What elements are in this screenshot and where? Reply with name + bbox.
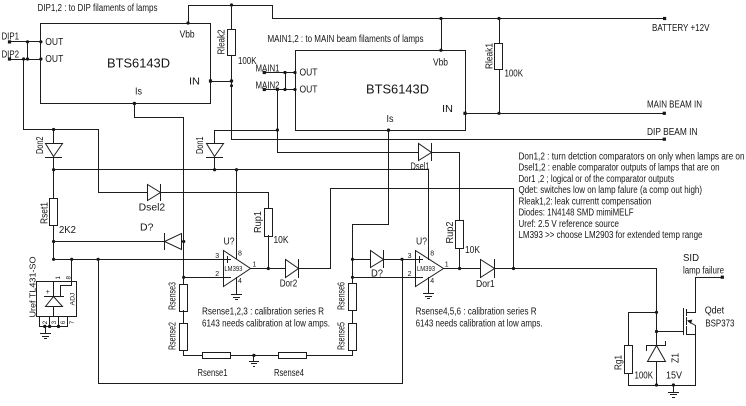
note: DIP filaments <box>38 3 158 14</box>
junction comp2 +input row <box>351 258 354 261</box>
note Rsense456 <box>416 307 537 318</box>
svg-text:OUT: OUT <box>45 37 63 48</box>
junction U1 Vbb pin <box>186 21 189 24</box>
svg-text:Rleak1: Rleak1 <box>485 43 496 69</box>
svg-text:Rsense5: Rsense5 <box>336 322 347 350</box>
svg-text:7: 7 <box>69 320 76 324</box>
svg-text:Diodes: 1N4148 SMD mimiMELF: Diodes: 1N4148 SMD mimiMELF <box>519 208 634 219</box>
junction Is/D? row <box>182 240 185 243</box>
wire OR node to Qdet gate column <box>495 268 657 270</box>
svg-text:LM393: LM393 <box>417 266 435 273</box>
pin 8 label (comp2) <box>430 251 434 258</box>
junction U2 Vbb pin <box>439 49 442 52</box>
resistor Rleak2 <box>217 6 236 56</box>
svg-text:Rsense6: Rsense6 <box>336 282 347 310</box>
junction Uref/D? row <box>52 240 55 243</box>
resistor Rsense6 <box>336 282 356 311</box>
node MAIN2 label <box>256 81 280 92</box>
svg-text:10K: 10K <box>465 245 480 256</box>
wire Rup2 bottom to comp2 output <box>459 249 461 269</box>
svg-text:Rset1: Rset1 <box>40 202 51 224</box>
wire DIP BEAM IN <box>232 139 665 141</box>
svg-text:Rsense4,5,6 : calibration seri: Rsense4,5,6 : calibration series R <box>416 307 537 318</box>
wire Rsense5-Rsense6 <box>352 311 354 324</box>
svg-text:Don1: Don1 <box>195 137 206 155</box>
svg-text:Don2: Don2 <box>35 137 46 155</box>
svg-text:2: 2 <box>408 271 412 278</box>
note line 2 <box>519 163 720 174</box>
note line 6 <box>519 208 634 219</box>
resistor Rup1 <box>253 209 273 237</box>
wire U1 IN pin <box>209 79 232 82</box>
junction OR node <box>512 267 515 270</box>
svg-text:Qdet: switches low on lamp fal: Qdet: switches low on lamp falure (a com… <box>519 185 703 196</box>
svg-text:MAIN BEAM IN: MAIN BEAM IN <box>647 100 702 111</box>
junction IN1 wire <box>230 79 233 87</box>
junction battery-Vbb2 <box>439 17 442 20</box>
svg-text:6: 6 <box>60 320 67 324</box>
svg-text:Rsense2: Rsense2 <box>168 322 179 350</box>
svg-text:Rsense3: Rsense3 <box>168 282 179 310</box>
svg-text:2: 2 <box>42 320 49 324</box>
svg-text:Is: Is <box>135 87 142 98</box>
svg-text:3: 3 <box>408 253 412 260</box>
junction ADJ tap <box>70 258 73 261</box>
wire Rsense6 top to Is2 jog <box>353 225 389 284</box>
pin 1 label (comp2) <box>445 261 449 268</box>
node MAIN1 pad <box>263 71 266 74</box>
resistor Rleak1 <box>485 19 503 70</box>
ground (Qdet source rail) <box>669 386 679 398</box>
wire comp1 output <box>251 268 286 270</box>
junction sense ground <box>252 354 255 357</box>
svg-text:Vbb: Vbb <box>433 58 448 69</box>
note Rsense456 line2 <box>416 319 543 330</box>
junction Rleak1 / MAIN BEAM <box>497 112 500 115</box>
wire U2 Is pin down <box>387 129 390 225</box>
svg-text:100K: 100K <box>505 69 524 80</box>
note line 4 <box>519 185 703 196</box>
svg-text:8: 8 <box>430 251 434 258</box>
svg-text:Rup1: Rup1 <box>253 211 264 233</box>
pin 3 label (comp1) <box>215 253 219 260</box>
pin 4 label (comp1) <box>238 278 242 285</box>
transistor Qdet BSP373 (N-MOSFET) <box>684 306 735 335</box>
svg-text:Rsense4: Rsense4 <box>274 368 304 379</box>
wire Dsel2 cathode to Rup1 <box>161 193 269 209</box>
svg-text:1: 1 <box>253 261 257 268</box>
svg-text:OUT: OUT <box>300 68 318 79</box>
pin 1 label (TL431) <box>55 276 62 280</box>
svg-text:Dor2: Dor2 <box>280 279 298 290</box>
wire comp1 pin4 to ground <box>236 278 238 295</box>
svg-text:BTS6143D: BTS6143D <box>366 82 429 97</box>
junction rail at Don1 <box>213 168 216 171</box>
wire Rsense3-Rsense2 <box>183 311 185 324</box>
note line 1 <box>519 151 745 162</box>
resistor Rsense1 <box>198 353 231 380</box>
svg-text:SID: SID <box>683 253 699 264</box>
resistor Rsense5 <box>336 322 356 351</box>
svg-text:1: 1 <box>445 261 449 268</box>
value 15V <box>666 370 682 381</box>
svg-text:Don1,2 : turn detction compara: Don1,2 : turn detction comparators on on… <box>519 151 745 162</box>
resistor Rsense3 <box>168 282 188 312</box>
svg-text:100K: 100K <box>238 56 257 67</box>
junction Uref riser <box>97 258 100 261</box>
svg-text:10K: 10K <box>274 235 289 246</box>
ground (TL431) <box>41 327 51 339</box>
svg-text:Uref TL431-SO: Uref TL431-SO <box>29 257 38 318</box>
wire DIP1-DIP2 strap <box>27 42 29 60</box>
wire Rset1 bottom to Uref node <box>53 226 55 260</box>
note line 3 <box>519 174 675 185</box>
diode D? (comp1 clamp, pointing left) <box>54 223 184 250</box>
junction DIP1 row <box>26 40 43 43</box>
wire Don2 row down to Dsel2 row <box>98 130 100 193</box>
pin 8 label (comp1) <box>238 251 242 258</box>
pin 8 label (TL431 ADJ) <box>66 276 73 280</box>
node SID lamp failure <box>683 253 724 279</box>
diode Dor1 <box>476 260 495 291</box>
wire DIP2 down to Don2 row <box>24 60 99 130</box>
svg-text:BTS6143D: BTS6143D <box>107 56 170 71</box>
wire TL431 cathode pin <box>53 282 55 297</box>
pin 2 label (comp2) <box>408 271 412 278</box>
node DIP1 pad <box>8 40 11 43</box>
resistor Rsense4 <box>274 353 307 380</box>
node DIP2 pad <box>8 57 11 60</box>
junction Don1 anode / MAIN2 <box>276 128 279 131</box>
wire Qdet source to rail <box>695 335 697 386</box>
node DIP2 label <box>2 50 20 61</box>
resistor Rsense2 <box>168 322 188 351</box>
U1 pin label Vbb <box>180 30 195 41</box>
svg-text:lamp failure: lamp failure <box>683 266 724 277</box>
ground (sense divider) <box>250 356 259 367</box>
note: MAIN filaments <box>268 34 424 45</box>
junction Rup2/output <box>458 267 461 270</box>
diode Dor2 <box>280 260 299 290</box>
wire Rleak2 bottom to DIP BEAM line <box>231 56 233 140</box>
wire comp2 pin8 supply <box>428 170 430 260</box>
note line 5 <box>519 196 652 207</box>
junction gate node / gate wire <box>655 330 658 333</box>
node DIP1 label <box>2 32 20 43</box>
svg-text:LM393 >> choose LM2903 for ext: LM393 >> choose LM2903 for extended temp… <box>519 230 703 241</box>
wire Uref riser to bottom rail <box>99 260 403 384</box>
wire U1 Vbb up to battery line <box>189 6 273 24</box>
svg-text:IN: IN <box>442 104 453 115</box>
junction battery-Rleak1 <box>497 17 500 20</box>
wire Rsense2 down to row <box>184 351 203 356</box>
svg-text:OUT: OUT <box>45 54 63 65</box>
svg-text:Dsel1: Dsel1 <box>411 162 430 173</box>
wire MAIN1-MAIN2 strap <box>285 73 287 90</box>
diode Dsel2 <box>99 185 166 214</box>
pin 1 label (comp1) <box>253 261 257 268</box>
value 2K2 <box>59 225 76 236</box>
pin 4 label (comp2) <box>430 278 434 285</box>
junction Don2 anode <box>52 128 55 131</box>
svg-text:IN: IN <box>189 76 200 87</box>
junction DIP2 row <box>22 57 43 60</box>
junction ground tap / rail <box>672 383 675 386</box>
wire Rleak1 bottom to MAIN BEAM line <box>499 70 501 114</box>
U2 pin label Vbb <box>433 58 448 69</box>
IC U2 BTS6143D (MAIN driver) box <box>296 51 466 131</box>
wire Rsense1 to ground tap <box>232 355 279 357</box>
diode Don2 <box>35 130 63 170</box>
svg-text:ADJ: ADJ <box>70 293 77 306</box>
U2 pin label OUT (1) <box>300 68 318 79</box>
junction Rup1/output <box>267 267 270 270</box>
wire MAIN1 to U2 OUT <box>265 72 296 74</box>
wire Don1 row down to Dsel1 row <box>278 130 419 153</box>
svg-text:OUT: OUT <box>300 85 318 96</box>
wire to Rg1 <box>629 313 657 346</box>
IC U1 BTS6143D (DIP driver) box <box>41 24 211 104</box>
U1 pin label Is <box>135 87 142 98</box>
wire Rg1 bottom to local rail <box>629 374 696 386</box>
svg-text:U?: U? <box>224 237 236 248</box>
wire DIP1 to U1 OUT <box>10 41 41 43</box>
zener diode Z1 <box>647 342 682 386</box>
svg-text:DIP BEAM IN: DIP BEAM IN <box>647 127 698 138</box>
diode D? (comp2 clamp, pointing right) <box>353 251 416 280</box>
wire U2 Vbb up to battery <box>441 19 443 51</box>
U2 pin label OUT (2) <box>300 85 318 96</box>
wire TL431 ADJ path <box>61 260 72 297</box>
value 100K (Rleak2) <box>238 56 257 67</box>
ground (comp1) <box>232 295 242 300</box>
wire MAIN2 to U2 OUT <box>265 89 296 91</box>
wire battery rail <box>273 6 665 19</box>
wire DIP2 to U1 OUT <box>10 59 41 61</box>
svg-text:3: 3 <box>51 320 58 324</box>
wire Qdet drain to SID <box>696 278 723 313</box>
pin 3 label (comp2) <box>408 253 412 260</box>
U2 pin label IN <box>442 104 453 115</box>
wire Uref to comp1 +input <box>54 259 224 261</box>
svg-text:6143 needs calibration at low: 6143 needs calibration at low amps. <box>202 319 330 330</box>
junction Z1 anode / rail <box>655 383 658 386</box>
wire comparator supply rail (Don cathodes) <box>54 169 429 171</box>
svg-text:+: + <box>46 289 50 296</box>
diode Don1 <box>195 131 278 170</box>
svg-text:4: 4 <box>238 278 242 285</box>
junction MAIN2 row <box>276 88 297 91</box>
svg-text:1: 1 <box>55 276 62 280</box>
resistor Rset1 <box>40 170 58 226</box>
svg-text:2K2: 2K2 <box>59 225 76 236</box>
U1 pin label IN <box>189 76 200 87</box>
svg-text:15V: 15V <box>666 370 682 381</box>
note Rsense123 line2 <box>202 319 330 330</box>
svg-text:Dor1: Dor1 <box>476 279 495 290</box>
svg-text:3: 3 <box>215 253 219 260</box>
svg-text:Rsense1,2,3 : calibration seri: Rsense1,2,3 : calibration series R <box>202 307 324 318</box>
wire comp1 inverting input <box>184 277 224 279</box>
node BATTERY +12V <box>652 17 710 34</box>
resistor Rup2 <box>445 221 464 249</box>
junction rail at Don2 <box>52 168 55 171</box>
svg-text:MAIN1,2 : to MAIN beam filamen: MAIN1,2 : to MAIN beam filaments of lamp… <box>268 34 424 45</box>
wire Rup1 bottom to comp1 output <box>268 236 270 269</box>
wire comp2 pin4 to ground <box>428 278 430 294</box>
node DIP BEAM IN <box>647 127 698 141</box>
svg-text:Dor1 ,2 ; logical or of the co: Dor1 ,2 ; logical or of the comparator o… <box>519 174 675 185</box>
TL431 pin cells 2,3,6 and 7 <box>40 317 76 327</box>
svg-text:Rsense1: Rsense1 <box>198 368 228 379</box>
svg-text:Z1: Z1 <box>671 353 682 363</box>
resistor Rg1 <box>614 346 633 374</box>
svg-text:Is: Is <box>387 114 394 125</box>
svg-text:100K: 100K <box>635 370 654 381</box>
svg-text:Rleak1,2: leak currentt compen: Rleak1,2: leak currentt compensation <box>519 196 652 207</box>
svg-text:DIP1,2 : to DIP filaments of l: DIP1,2 : to DIP filaments of lamps <box>38 3 158 14</box>
wire comp2 output <box>444 268 481 270</box>
IC Uref TL431-SO <box>29 257 77 318</box>
junction gate node / Rg1 <box>655 311 658 314</box>
U1 pin label OUT (2) <box>45 54 63 65</box>
svg-text:Uref: 2.5 V reference source: Uref: 2.5 V reference source <box>519 219 620 230</box>
node MAIN2 pad <box>263 88 266 91</box>
node MAIN BEAM IN <box>647 100 702 115</box>
junction rail at comp1 V+ <box>235 168 238 171</box>
wire U1 Is jog to sense column <box>133 102 184 285</box>
note line 8 <box>519 230 703 241</box>
value 100K (Rg1) <box>635 370 654 381</box>
junction MAIN1 row <box>283 71 296 74</box>
svg-text:BSP373: BSP373 <box>705 319 734 330</box>
note line 7 <box>519 219 620 230</box>
wire Rsense4 to Rsense5 column <box>307 351 353 356</box>
diode Dsel1 <box>411 144 432 173</box>
value 10K (Rup1) <box>274 235 289 246</box>
svg-text:Rleak2: Rleak2 <box>217 30 228 55</box>
wire comp2 inverting input <box>353 277 416 279</box>
value 100K (Rleak1) <box>505 69 524 80</box>
junction Is/comp1 inverting row <box>182 276 185 279</box>
svg-text:2: 2 <box>215 271 219 278</box>
junction Uref/+input row <box>52 258 55 261</box>
ground (comp2) <box>424 294 434 299</box>
wire MAIN2 down to Don1 row <box>277 90 279 130</box>
wire gate node column <box>656 269 658 346</box>
svg-text:D?: D? <box>140 223 154 234</box>
wire Dsel1 cathode to Rup2 <box>432 153 460 221</box>
pin 2 label (comp1) <box>215 271 219 278</box>
junction comp2 -input row <box>351 276 354 279</box>
svg-text:6143 needs calibration at low: 6143 needs calibration at low amps. <box>416 319 543 330</box>
svg-text:8: 8 <box>238 251 242 258</box>
op-amp U? comparator LM393 (left) <box>224 237 251 287</box>
op-amp U? comparator LM393 (right) <box>416 237 444 287</box>
svg-text:Dsel2: Dsel2 <box>139 203 166 214</box>
svg-text:Rup2: Rup2 <box>445 222 456 244</box>
svg-text:4: 4 <box>430 278 434 285</box>
svg-text:U?: U? <box>416 237 428 248</box>
U2 pin label Is <box>387 114 394 125</box>
svg-text:Rg1: Rg1 <box>614 355 625 370</box>
svg-text:BATTERY +12V: BATTERY +12V <box>652 23 710 34</box>
wire Dor2 output up-and-over to OR node <box>299 189 514 269</box>
junction battery-Rleak2 <box>230 3 233 6</box>
U1 pin label OUT (1) <box>45 37 63 48</box>
junctions TL431 grounded pins <box>43 325 60 328</box>
svg-text:Dsel1,2 : enable comparator ou: Dsel1,2 : enable comparator outputs of l… <box>519 163 720 174</box>
wire comp1 pin8 supply <box>236 170 238 259</box>
svg-text:LM393: LM393 <box>224 266 242 273</box>
value 10K (Rup2) <box>465 245 480 256</box>
wire MAIN BEAM IN <box>463 112 664 115</box>
svg-text:Vbb: Vbb <box>180 30 195 41</box>
note Rsense123 <box>202 307 324 318</box>
node MAIN1 label <box>256 64 280 75</box>
svg-text:Qdet: Qdet <box>705 306 725 317</box>
wire gate to Qdet <box>657 331 684 333</box>
junction comp2 +input node <box>400 258 403 261</box>
TL431 internal shunt symbol <box>45 289 77 317</box>
